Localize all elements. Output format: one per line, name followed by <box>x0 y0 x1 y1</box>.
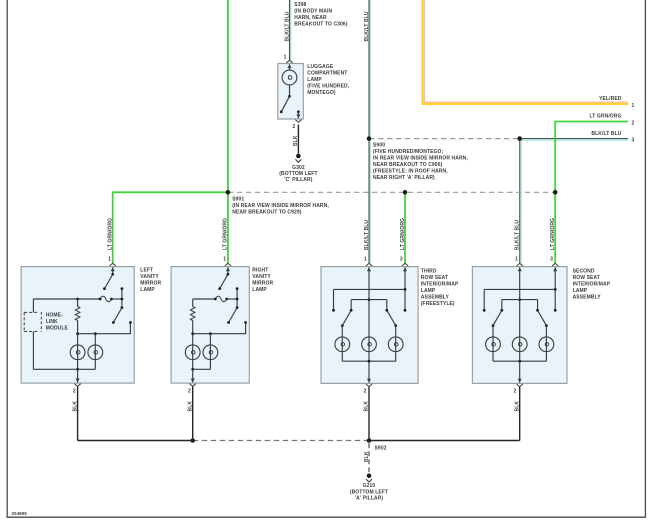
svg-text:VANITY: VANITY <box>252 274 271 280</box>
svg-text:LINK: LINK <box>46 319 58 325</box>
svg-text:ROW SEAT: ROW SEAT <box>573 275 600 281</box>
svg-text:2: 2 <box>73 389 76 395</box>
svg-text:COMPARTMENT: COMPARTMENT <box>307 70 347 76</box>
svg-text:BLK: BLK <box>364 451 370 462</box>
svg-text:NEAR RIGHT 'A' PILLAR): NEAR RIGHT 'A' PILLAR) <box>373 175 435 181</box>
svg-text:ASSEMBLY: ASSEMBLY <box>573 295 602 301</box>
svg-text:BREAKOUT TO C306): BREAKOUT TO C306) <box>294 22 348 28</box>
svg-text:3: 3 <box>632 138 635 144</box>
svg-text:'C' PILLAR): 'C' PILLAR) <box>284 177 312 183</box>
svg-text:INTERIOR/MAP: INTERIOR/MAP <box>421 282 459 288</box>
svg-text:1: 1 <box>515 256 518 262</box>
svg-text:2: 2 <box>292 124 295 130</box>
svg-text:S902: S902 <box>375 445 387 451</box>
svg-text:2: 2 <box>364 389 367 395</box>
svg-text:2: 2 <box>188 389 191 395</box>
svg-text:BLK: BLK <box>72 401 78 412</box>
svg-text:IN REAR VIEW INSIDE MIRROR HAR: IN REAR VIEW INSIDE MIRROR HARN, <box>373 155 468 161</box>
svg-text:HARN, NEAR: HARN, NEAR <box>294 15 327 21</box>
svg-text:3: 3 <box>550 256 553 262</box>
svg-text:LT GRN/ORG: LT GRN/ORG <box>400 218 406 250</box>
svg-text:INTERIOR/MAP: INTERIOR/MAP <box>573 282 611 288</box>
svg-text:RIGHT: RIGHT <box>252 267 268 273</box>
svg-text:BLK/LT BLU: BLK/LT BLU <box>515 220 521 250</box>
svg-text:204999: 204999 <box>12 511 28 516</box>
svg-text:BLK/LT BLU: BLK/LT BLU <box>284 11 290 41</box>
svg-text:THIRD: THIRD <box>421 269 437 275</box>
svg-text:(FREESTYLE: IN ROOF HARN,: (FREESTYLE: IN ROOF HARN, <box>373 168 448 174</box>
svg-text:G210: G210 <box>363 483 376 489</box>
svg-text:BLK: BLK <box>514 401 520 412</box>
svg-text:LT GRN/ORG: LT GRN/ORG <box>550 218 556 250</box>
svg-text:S398: S398 <box>294 2 306 8</box>
svg-text:1: 1 <box>223 256 226 262</box>
svg-text:S901: S901 <box>232 196 244 202</box>
svg-text:LT GRN/ORG: LT GRN/ORG <box>108 218 114 250</box>
svg-text:G302: G302 <box>292 165 305 171</box>
svg-text:LT GRN/ORG: LT GRN/ORG <box>222 218 228 250</box>
svg-text:LAMP: LAMP <box>252 287 267 293</box>
svg-text:1: 1 <box>284 54 287 60</box>
svg-text:MIRROR: MIRROR <box>140 280 161 286</box>
svg-text:1: 1 <box>364 256 367 262</box>
svg-text:(BOTTOM LEFT: (BOTTOM LEFT <box>350 489 388 495</box>
svg-text:LAMP: LAMP <box>307 77 322 83</box>
svg-text:MODULE: MODULE <box>46 326 69 332</box>
svg-text:NEAR BREAKOUT TO C906): NEAR BREAKOUT TO C906) <box>373 162 443 168</box>
svg-text:S900: S900 <box>373 142 385 148</box>
svg-text:LAMP: LAMP <box>573 288 588 294</box>
svg-text:LT GRN/ORG: LT GRN/ORG <box>589 113 621 119</box>
svg-text:BLK: BLK <box>187 401 193 412</box>
svg-text:LEFT: LEFT <box>140 267 153 273</box>
svg-text:LAMP: LAMP <box>421 288 436 294</box>
svg-text:(FREESTYLE): (FREESTYLE) <box>421 301 455 307</box>
svg-text:MONTEGO): MONTEGO) <box>307 90 336 96</box>
svg-text:2: 2 <box>514 389 517 395</box>
svg-text:BLK: BLK <box>293 135 299 146</box>
svg-text:LUGGAGE: LUGGAGE <box>307 64 334 70</box>
svg-text:ROW SEAT: ROW SEAT <box>421 275 448 281</box>
svg-text:(IN REAR VIEW INSIDE MIRROR HA: (IN REAR VIEW INSIDE MIRROR HARN, <box>232 203 329 209</box>
svg-text:VANITY: VANITY <box>140 274 159 280</box>
svg-text:(FIVE HUNDRED/MONTEGO;: (FIVE HUNDRED/MONTEGO; <box>373 149 443 155</box>
svg-text:BLK/LT BLU: BLK/LT BLU <box>364 11 370 41</box>
svg-text:'A' PILLAR): 'A' PILLAR) <box>355 496 383 502</box>
svg-text:1: 1 <box>108 256 111 262</box>
svg-text:YEL/RED: YEL/RED <box>599 96 622 102</box>
svg-text:(FIVE HUNDRED,: (FIVE HUNDRED, <box>307 83 349 89</box>
svg-text:2: 2 <box>632 120 635 126</box>
svg-text:(IN BODY MAIN: (IN BODY MAIN <box>294 9 332 15</box>
svg-text:BLK/LT BLU: BLK/LT BLU <box>364 220 370 250</box>
svg-text:MIRROR: MIRROR <box>252 280 273 286</box>
svg-text:1: 1 <box>632 103 635 109</box>
svg-text:BLK/LT BLU: BLK/LT BLU <box>591 131 621 137</box>
svg-text:SECOND: SECOND <box>573 269 595 275</box>
svg-text:ASSEMBLY: ASSEMBLY <box>421 295 450 301</box>
svg-text:HOME-: HOME- <box>46 313 63 319</box>
svg-text:LAMP: LAMP <box>140 287 155 293</box>
svg-text:(BOTTOM LEFT: (BOTTOM LEFT <box>279 171 317 177</box>
svg-text:NEAR BREAKOUT TO C929): NEAR BREAKOUT TO C929) <box>232 209 302 215</box>
svg-text:3: 3 <box>400 256 403 262</box>
svg-text:BLK: BLK <box>364 401 370 412</box>
